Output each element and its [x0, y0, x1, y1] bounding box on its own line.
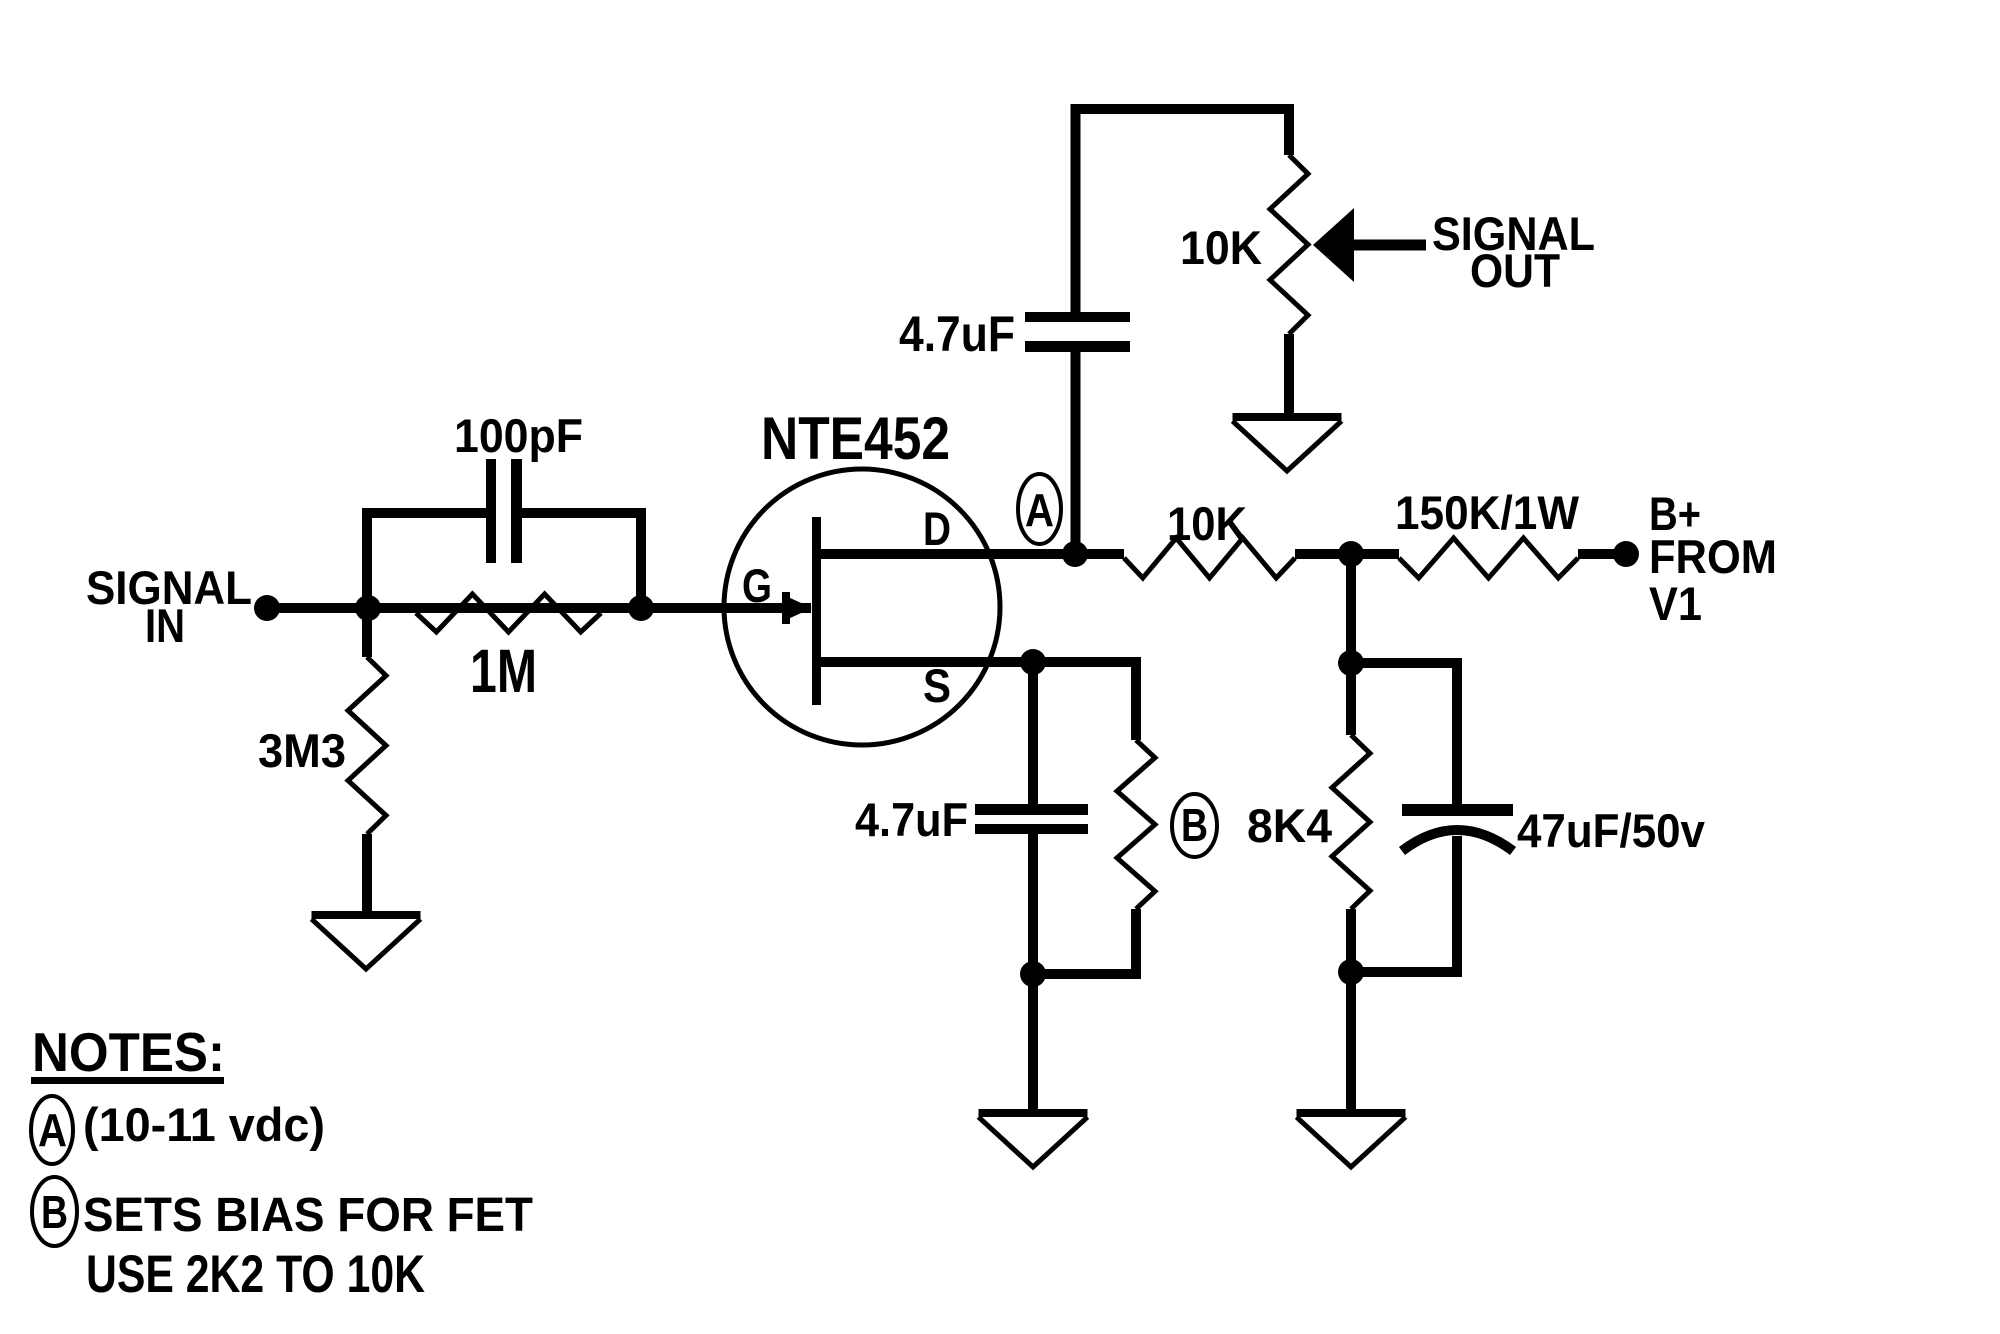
capacitor 100pF [486, 459, 496, 563]
wire: bypass cap to bottom node [1028, 834, 1038, 975]
wire: 8K4 bottom to ground [1346, 909, 1356, 1111]
node: B+ terminal [1613, 541, 1639, 567]
resistor B source bias [1117, 740, 1155, 909]
svg-text:B: B [1181, 799, 1208, 851]
svg-text:3M3: 3M3 [258, 724, 346, 777]
wire: 47uF bottom to node [1351, 836, 1457, 972]
FET channel bar [812, 517, 821, 705]
svg-text:FROM: FROM [1649, 530, 1777, 583]
ground below 8K4 [1297, 1109, 1406, 1117]
svg-text:IN: IN [145, 599, 185, 652]
node label B circled [1172, 794, 1217, 857]
node: 8K4 bottom junction [1338, 959, 1364, 985]
svg-text:S: S [923, 659, 951, 712]
capacitor 47uF/50v polarized [1402, 804, 1513, 816]
svg-text:D: D [923, 502, 951, 555]
wire: bypass node to ground [1028, 974, 1038, 1111]
wire: wiper to SIGNAL OUT [1352, 240, 1426, 251]
transistor Q1 NTE452 circle [724, 469, 1000, 745]
wire: source node down to bypass cap [1028, 662, 1038, 804]
wire: junction down to 3M3 [362, 608, 372, 657]
node A: drain junction [1062, 541, 1088, 567]
svg-text:A: A [38, 1104, 67, 1156]
capacitor 4.7uF source bypass [975, 804, 1088, 815]
resistor 10K drain load [1124, 538, 1295, 578]
svg-text:NTE452: NTE452 [761, 405, 950, 472]
ground below 3M3 [312, 911, 421, 919]
wire: 150K node down through 8K4 top [1346, 554, 1356, 735]
node: signal in terminal [254, 595, 280, 621]
wire: B resistor bottom to node [1033, 909, 1136, 974]
svg-text:47uF/50v: 47uF/50v [1517, 804, 1705, 857]
wire: 8K4 node over and down to 47uF [1351, 663, 1457, 804]
svg-text:8K4: 8K4 [1247, 799, 1332, 852]
svg-text:10K: 10K [1180, 221, 1262, 274]
svg-text:A: A [1025, 484, 1054, 536]
potentiometer wiper arrow [1313, 208, 1354, 282]
wire: drain line [817, 549, 1124, 559]
wire: 3M3 to ground [362, 834, 372, 913]
node label A circled [1018, 474, 1061, 544]
svg-text:OUT: OUT [1470, 244, 1560, 297]
svg-text:G: G [742, 559, 772, 612]
svg-text:NOTES:: NOTES: [32, 1021, 225, 1083]
wire: 10K to 150K [1295, 549, 1399, 559]
resistor 3M3 [348, 657, 386, 834]
svg-text:4.7uF: 4.7uF [855, 793, 968, 846]
node: bypass bottom junction [1020, 961, 1046, 987]
svg-text:V1: V1 [1649, 577, 1702, 630]
capacitor 4.7uF output coupling [1025, 312, 1130, 322]
svg-text:100pF: 100pF [454, 409, 583, 462]
wire: pot bottom to ground [1284, 334, 1294, 415]
svg-text:1M: 1M [470, 637, 537, 705]
svg-text:USE 2K2 TO 10K: USE 2K2 TO 10K [86, 1245, 425, 1304]
note B circled [32, 1177, 77, 1246]
node: gate junction right [628, 595, 654, 621]
potentiometer 10K [1270, 155, 1308, 334]
node: 10K/150K junction [1338, 541, 1364, 567]
svg-text:SETS BIAS FOR FET: SETS BIAS FOR FET [83, 1189, 533, 1242]
resistor 8K4 [1332, 735, 1370, 909]
wire: signal-in to gate [267, 603, 811, 613]
wire: source line + down to B resistor [817, 662, 1136, 740]
resistor 150K/1W [1399, 538, 1578, 578]
note A circled [31, 1096, 73, 1164]
resistor 1M [416, 594, 601, 632]
svg-text:150K/1W: 150K/1W [1395, 486, 1580, 539]
wire: 100pF branch left riser + top run [367, 513, 486, 608]
node: source junction [1020, 649, 1046, 675]
ground below source bypass [979, 1109, 1088, 1117]
node: 8K4 top junction [1338, 650, 1364, 676]
svg-text:4.7uF: 4.7uF [899, 306, 1015, 362]
wire: 150K to B+ terminal [1578, 549, 1626, 559]
node: gate junction left [355, 595, 381, 621]
svg-text:10K: 10K [1167, 497, 1247, 550]
wire: 100pF branch right run + riser [522, 513, 641, 608]
ground below pot [1233, 413, 1342, 421]
svg-text:(10-11 vdc): (10-11 vdc) [83, 1098, 325, 1151]
wire: node A up to coupling cap [1071, 352, 1081, 554]
svg-text:B: B [41, 1186, 68, 1238]
FET gate arrow [782, 592, 790, 624]
wire: coupling cap up over to pot top [1076, 109, 1290, 312]
